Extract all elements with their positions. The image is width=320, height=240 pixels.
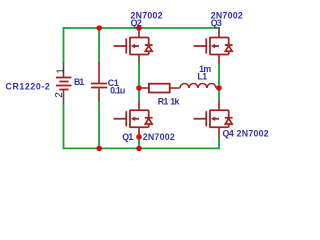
svg-text:Q4: Q4 [223, 129, 234, 139]
svg-text:2: 2 [54, 92, 65, 98]
svg-text:Q2: Q2 [131, 18, 142, 28]
svg-text:1: 1 [55, 68, 66, 74]
svg-text:0.1u: 0.1u [110, 86, 125, 96]
svg-text:B1: B1 [74, 77, 84, 87]
svg-text:1k: 1k [170, 96, 179, 106]
svg-text:Q1: Q1 [122, 132, 133, 142]
svg-text:2N7002: 2N7002 [237, 129, 269, 139]
svg-text:R1: R1 [158, 96, 169, 106]
svg-text:L1: L1 [197, 72, 207, 82]
svg-text:2N7002: 2N7002 [143, 132, 175, 142]
svg-text:Q3: Q3 [211, 18, 222, 28]
svg-text:CR1220-2: CR1220-2 [6, 81, 51, 91]
